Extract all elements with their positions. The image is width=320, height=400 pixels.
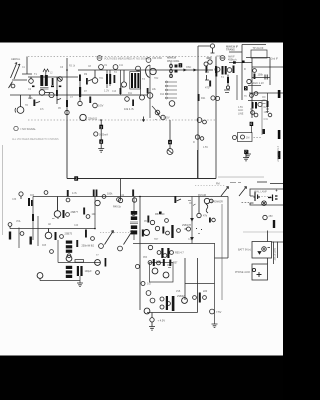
- IF T3 winding3: [137, 73, 139, 88]
- wire y318: [147, 312, 198, 314]
- small marks below T4: [224, 90, 230, 93]
- svg-text:R53: R53: [143, 257, 148, 259]
- FM OSC circle note: [146, 58, 151, 63]
- vertical x19 audio: [18, 228, 20, 249]
- bias row circle a: [148, 261, 152, 265]
- driver transformer T5 winding top2: [131, 216, 137, 220]
- letterbox bottom bar: [0, 356, 283, 400]
- circled speaker node: [204, 198, 209, 203]
- circled node q3: [166, 231, 170, 235]
- small circle on bus b: [113, 65, 118, 70]
- wire y67 right: [252, 66, 283, 68]
- wire y77 right: [252, 77, 270, 79]
- resistor r x210: [209, 81, 211, 87]
- svg-text:2SB178: 2SB178: [182, 224, 192, 227]
- left column capacitor circle: [78, 81, 82, 106]
- wire top right corner: [198, 46, 210, 179]
- ground below tag4: [98, 144, 104, 152]
- circled node row1: [44, 191, 48, 195]
- circled top symbol: [210, 44, 214, 53]
- AGC box: [238, 133, 253, 142]
- mixer circle pair: [211, 96, 220, 101]
- battery node circle: [150, 313, 154, 322]
- MW/LW OSC COIL text: [167, 56, 180, 63]
- driver transformer T5 winding top1: [131, 211, 137, 215]
- osc left transistor: [147, 88, 153, 98]
- svg-text:R49 1k: R49 1k: [113, 206, 122, 209]
- output electrolytic a: [166, 296, 168, 310]
- circled input node: [19, 192, 23, 199]
- wire y283 center: [185, 283, 215, 285]
- svg-text:6: 6: [250, 122, 252, 126]
- earth symbol below tag4b: [167, 144, 173, 154]
- svg-text:0.5V: 0.5V: [98, 104, 104, 108]
- svg-text:R50: R50: [144, 221, 149, 223]
- volume control arrow a: [105, 231, 114, 245]
- vertical x80 low: [79, 276, 81, 283]
- wire x170 drop: [169, 120, 171, 140]
- detector circle: [258, 102, 262, 106]
- svg-text:5: 5: [245, 87, 247, 91]
- svg-text:BATT 9V(+): BATT 9V(+): [238, 249, 251, 252]
- svg-text:2SB: 2SB: [176, 291, 181, 293]
- speaker circle: [95, 260, 101, 266]
- right edge tag c: [278, 151, 281, 159]
- wire y183 right edge: [270, 183, 283, 185]
- osc left vertical: [149, 65, 151, 118]
- right strip circle: [268, 113, 272, 117]
- left column electrolytic: [79, 87, 81, 97]
- svg-text:470: 470: [205, 86, 210, 90]
- pilot cap bar: [273, 220, 275, 228]
- electrolytic pair low: [77, 266, 83, 276]
- svg-text:100k: 100k: [107, 193, 113, 196]
- resistor R6: [114, 75, 116, 83]
- osc small cap b: [161, 115, 166, 120]
- IF transformer T2 winding2: [109, 74, 111, 84]
- T5 leads: [133, 197, 135, 241]
- resistor on x216: [215, 66, 217, 73]
- letterbox top bar: [0, 0, 283, 43]
- transistor TR2: [15, 95, 24, 113]
- vertical x262 light: [261, 100, 263, 135]
- svg-text:2.2k: 2.2k: [28, 97, 33, 100]
- svg-text:C36: C36: [12, 199, 17, 201]
- svg-text:1: 1: [179, 64, 181, 68]
- electrolytic left: [9, 232, 11, 240]
- svg-text:TRANS: TRANS: [226, 48, 235, 52]
- vertical x215 center: [215, 244, 229, 325]
- driver input circle: [136, 265, 140, 269]
- circled IF note: [220, 56, 225, 61]
- arrows on x192 drop: [191, 218, 194, 240]
- transistor TR8: [54, 197, 61, 218]
- vertical x222 light: [221, 204, 223, 300]
- svg-text:100μF: 100μF: [85, 270, 93, 273]
- svg-text:R40: R40: [30, 195, 35, 197]
- bias row circle b: [157, 261, 161, 265]
- earphone box: [252, 264, 268, 280]
- T5 core lines: [130, 222, 138, 224]
- cluster top right circle: [197, 197, 201, 218]
- audio wire y196 center: [140, 196, 228, 198]
- resistor R5: [86, 78, 92, 85]
- svg-text:2SB77: 2SB77: [71, 211, 79, 214]
- oscillator transistor TR5: [146, 65, 157, 78]
- volume pot circles right: [251, 111, 258, 117]
- svg-text:LINE: LINE: [238, 112, 244, 115]
- svg-text:ALL VOLTAGES MEASURED TO CHASS: ALL VOLTAGES MEASURED TO CHASSIS: [12, 138, 59, 141]
- dotted segment y185: [195, 185, 225, 187]
- output transformer T7 winding2: [66, 270, 72, 273]
- vertical x38 audio: [37, 216, 39, 246]
- test point circle 0.25: [94, 132, 98, 136]
- svg-text:2 STAGE AMP: 2 STAGE AMP: [276, 146, 279, 162]
- driver marks: [167, 265, 171, 268]
- band switch marks: [230, 182, 241, 184]
- circled node left edge a: [8, 223, 12, 229]
- right edge tag a: [278, 90, 281, 98]
- svg-text:1.5V: 1.5V: [203, 146, 208, 149]
- electrolytic center: [171, 225, 173, 238]
- small circle on bus a: [99, 65, 104, 70]
- svg-text:4.7k: 4.7k: [72, 192, 77, 195]
- output transformer T7 winding3: [66, 275, 72, 278]
- svg-text:TR: TR: [25, 105, 28, 107]
- svg-text:455kc/s: 455kc/s: [228, 59, 237, 62]
- output transformer T6 winding3: [66, 250, 72, 253]
- left components column x80 resistor stack: [79, 75, 81, 82]
- svg-text:AF: AF: [48, 223, 52, 226]
- wire aerial to tuner: [12, 57, 32, 81]
- svg-text:C31: C31: [264, 118, 269, 121]
- circled node y291: [141, 282, 145, 286]
- small circle on bus c: [136, 66, 141, 71]
- long vertical wire x67: [66, 58, 68, 120]
- antenna AE1: [9, 63, 21, 89]
- transistor TR9: [45, 229, 52, 239]
- circled node row2: [66, 213, 70, 217]
- svg-text:R55 4.7: R55 4.7: [175, 252, 184, 255]
- T6 cap circle: [67, 254, 71, 258]
- transformer T1 primary: [40, 75, 43, 86]
- circle speaker second: [210, 199, 214, 203]
- svg-text:TP 2nd IF: TP 2nd IF: [253, 47, 264, 50]
- junction dot j3: [139, 196, 141, 198]
- capacitor right a: [253, 69, 257, 73]
- capacitor C4 on x67: [65, 110, 69, 114]
- vertical x185 center: [184, 258, 186, 300]
- mixer components x205-212: [205, 58, 212, 80]
- circled node low a: [50, 250, 54, 254]
- resistor center a: [147, 216, 154, 225]
- TP box top right: [251, 50, 267, 58]
- capacitor bars right: [265, 75, 267, 80]
- battery to earphone wire: [267, 258, 269, 264]
- svg-text:R21: R21: [201, 97, 206, 100]
- output pair circle b: [160, 297, 164, 301]
- low cluster circle a: [193, 296, 197, 300]
- circled node low b: [96, 271, 100, 275]
- AM IF text: [228, 56, 237, 62]
- svg-text:4: 4: [100, 140, 102, 144]
- text rows right column: [264, 106, 269, 121]
- svg-text:1M: 1M: [246, 137, 249, 140]
- input transistor bars: [28, 198, 33, 206]
- arrow on dashed line: [142, 117, 144, 122]
- svg-text:0.5: 0.5: [147, 283, 151, 286]
- scanned page background: [0, 43, 283, 356]
- resistor arrow center top: [174, 196, 181, 203]
- dial lamp bulb: [262, 201, 267, 206]
- svg-text:OSC COIL: OSC COIL: [167, 59, 180, 63]
- audio wire y262: [58, 262, 100, 264]
- svg-text:7: 7: [245, 150, 247, 154]
- svg-text:C40: C40: [74, 225, 79, 227]
- low cluster bar: [199, 293, 201, 303]
- audio top small marks: [52, 218, 59, 220]
- driver transistor TR13: [152, 268, 158, 274]
- resistor R35: [83, 208, 90, 219]
- wire x120 drop to audio: [120, 179, 122, 197]
- circled node center r: [165, 219, 169, 223]
- vertical x58 low: [57, 240, 59, 263]
- bias row bar c: [169, 260, 171, 267]
- speaker bar: [105, 258, 107, 267]
- svg-text:TR7: TR7: [154, 239, 159, 241]
- circled node row3b: [60, 235, 64, 239]
- circled node row1b: [102, 195, 106, 199]
- bottom left no-signal note circle: [14, 126, 18, 130]
- tag 7 right: [244, 150, 248, 154]
- dashed gang line vol: [100, 232, 130, 234]
- svg-text:R3 1k: R3 1k: [69, 66, 76, 68]
- interstage transformer bars: [161, 248, 169, 258]
- tag 1: [179, 63, 183, 67]
- resistor center b: [162, 227, 164, 234]
- TR9 emitter bars: [55, 232, 57, 240]
- center block left border x140: [139, 197, 141, 311]
- resistor on spine: [198, 94, 200, 101]
- circled node y247: [148, 245, 152, 249]
- center block right border x228: [227, 197, 229, 259]
- tag 5 right: [244, 86, 248, 90]
- transistor bars left low: [30, 237, 32, 245]
- junction blob right: [242, 61, 245, 63]
- resistor below T4: [226, 75, 229, 90]
- transistor TR1: [39, 90, 50, 96]
- transistor TR12: [144, 230, 150, 236]
- circled node row1c: [117, 198, 121, 202]
- driver transistor TR14: [163, 272, 169, 278]
- battery feed wire: [267, 231, 269, 242]
- arrow marks on bus y70: [184, 69, 196, 71]
- svg-text:0.6V: 0.6V: [217, 55, 222, 58]
- resistor R3 with arrow: [30, 95, 40, 106]
- junction dot j4: [94, 228, 96, 230]
- circled node center q: [132, 212, 136, 216]
- svg-text:DIAL LAMP: DIAL LAMP: [255, 191, 268, 194]
- svg-text:2: 2: [75, 177, 77, 181]
- ground below tag7: [243, 154, 249, 161]
- right strip cross marks: [266, 109, 269, 112]
- wire x101 drop: [100, 120, 102, 125]
- gray line y232: [243, 231, 283, 233]
- dot marks near agc node: [196, 228, 202, 234]
- antenna base capacitor: [11, 84, 15, 88]
- svg-text:4: 4: [169, 141, 171, 145]
- output pair circle c: [160, 305, 164, 309]
- driver box: [150, 263, 174, 283]
- switch dash marks left of speaker: [188, 201, 196, 206]
- dashed tuner enclosure top edge: [28, 56, 212, 58]
- transformer T1 core: [40, 88, 49, 90]
- ground low x80: [77, 283, 83, 287]
- bias row bar a: [153, 259, 155, 266]
- faint line y177 right: [218, 176, 264, 178]
- IF transformer T2 winding1: [106, 74, 108, 84]
- dial lamp box: [250, 189, 283, 205]
- MW/LW IF TRANS text: [226, 45, 238, 52]
- dial lamp cap: [254, 192, 261, 202]
- svg-text:C19: C19: [205, 72, 210, 74]
- ground right x248: [245, 150, 251, 158]
- osc capacitor circle: [169, 101, 175, 107]
- resistor R8: [89, 97, 97, 108]
- ground low x151: [149, 322, 155, 330]
- circled node y313: [146, 291, 151, 296]
- circled letter A: [99, 244, 104, 249]
- svg-text:100k: 100k: [258, 74, 264, 77]
- circled letter B: [118, 246, 123, 251]
- wire x140 drop: [140, 70, 142, 95]
- wire main bus y70: [78, 69, 213, 71]
- svg-text:PHONE JACK: PHONE JACK: [235, 271, 251, 274]
- transistor right strip TR6: [247, 79, 251, 83]
- transformer T1 secondary: [45, 75, 48, 86]
- wire bus down x67 to audio: [66, 120, 68, 179]
- svg-text:10k 4.7k: 10k 4.7k: [124, 107, 135, 111]
- junction dots row y86: [32, 86, 61, 88]
- svg-text:250mW 8Ω: 250mW 8Ω: [82, 245, 95, 248]
- wire horizontal y178.5: [67, 178, 216, 180]
- right edge tag b: [278, 130, 281, 139]
- tag 3: [99, 125, 103, 130]
- svg-text:VOLTAGES MEASURED AT NO SIGNAL: VOLTAGES MEASURED AT NO SIGNAL: [104, 58, 150, 61]
- transistor TR10: [66, 256, 72, 262]
- text rows agc: [238, 106, 244, 115]
- driver transformer T5 winding bot2: [131, 230, 137, 234]
- text speaker: [198, 194, 223, 204]
- svg-text:2nd IF: 2nd IF: [271, 58, 279, 61]
- IF transformer T4 cluster: [215, 66, 235, 77]
- note circle symbol: [97, 56, 102, 61]
- svg-text:0.25V: 0.25V: [163, 117, 170, 120]
- svg-text:AGC 1.1V: AGC 1.1V: [253, 82, 265, 85]
- resistor R4 on x67: [66, 100, 68, 107]
- audio wire y196: [33, 196, 140, 198]
- bias row bar b: [163, 259, 165, 266]
- left page fold line: [2, 145, 4, 235]
- IF T3 winding2: [134, 73, 136, 88]
- IF T3 winding1: [131, 73, 133, 88]
- resistor R33: [132, 190, 137, 203]
- svg-text:R45: R45: [42, 245, 47, 247]
- junction dot j1: [66, 69, 68, 71]
- low cluster circle b: [203, 296, 207, 300]
- output transformer T6 winding2: [66, 245, 72, 248]
- resistor on x33: [32, 214, 34, 221]
- capacitor circle y92: [250, 92, 258, 98]
- node circle pair y137: [195, 135, 204, 141]
- right strip small box: [263, 129, 266, 134]
- IF T2 leads: [107, 70, 110, 88]
- svg-text:R51 220: R51 220: [155, 213, 165, 216]
- resistor outline horizontal: [75, 260, 84, 263]
- vertical x197 lower: [197, 150, 199, 179]
- output circle d: [167, 302, 171, 306]
- transistor TR4: [80, 114, 86, 120]
- TR8 emitter bars: [63, 210, 65, 218]
- battery box: [252, 242, 283, 265]
- battery plus circle: [258, 247, 270, 254]
- capacitor C2 circle: [58, 77, 63, 82]
- resistor R2 vertical: [56, 77, 61, 104]
- dial lamp cap2: [268, 195, 278, 202]
- output transformer T6 winding1: [66, 241, 72, 244]
- dark square center: [159, 212, 162, 215]
- osc small cap a: [155, 110, 160, 115]
- svg-text:220: 220: [203, 290, 208, 293]
- transistor TR7: [95, 200, 100, 205]
- earphone jack circle: [252, 268, 261, 277]
- tag 4b: [168, 140, 172, 145]
- circled node center top: [118, 197, 122, 203]
- tag 2: [74, 176, 78, 181]
- AGC box circle: [241, 135, 245, 139]
- wire x251 tag drop: [250, 126, 252, 133]
- capacitor C1: [29, 77, 34, 83]
- svg-text:7.5V: 7.5V: [216, 310, 222, 314]
- vertical x33 left: [32, 197, 34, 241]
- junction dot j2: [100, 119, 102, 121]
- circle pair left spine: [197, 118, 206, 124]
- dotted marks near arrow: [155, 119, 162, 120]
- dashes left of dial lamp box: [242, 201, 250, 203]
- wire y100 right: [248, 93, 268, 113]
- band arrow b: [239, 187, 247, 197]
- resistor 100k: [254, 74, 256, 80]
- wire y93 right long: [249, 92, 283, 94]
- transistor TR1b: [49, 92, 54, 97]
- svg-text:2SB32: 2SB32: [177, 295, 185, 298]
- vertical x237: [236, 75, 238, 100]
- junction block y62.5: [233, 61, 236, 63]
- svg-text:OSC: OSC: [186, 66, 191, 69]
- svg-text:TR1: TR1: [99, 78, 104, 80]
- tag 4: [99, 139, 103, 144]
- svg-text:2SB75: 2SB75: [65, 233, 73, 236]
- right section border x242: [229, 45, 266, 101]
- IF transformer T3 box: [130, 72, 141, 90]
- output big circle: [182, 298, 188, 304]
- circled node q4: [177, 229, 181, 233]
- capacitor cluster mid: [125, 95, 145, 106]
- wire main bus y77 left: [28, 76, 78, 78]
- driver transformer T5 winding bot1: [131, 225, 137, 229]
- wire tag3 to tag4: [100, 129, 102, 140]
- transistor TR15: [144, 308, 150, 314]
